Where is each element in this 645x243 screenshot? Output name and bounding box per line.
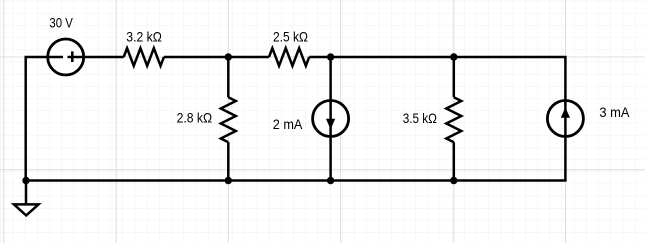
svg-text:3 mA: 3 mA [599,104,630,120]
svg-text:30 V: 30 V [49,15,73,31]
node: ground junction [22,177,29,184]
wire: 2 mA branch vertical [329,57,332,181]
wire: 3.5k branch lower stub [453,142,456,180]
wire: 2.8k branch upper stub [227,57,230,97]
wire: ground stub [25,181,28,205]
voltage source V1 30 V [48,39,84,75]
node: bottom of 3.5k branch [450,177,457,184]
node: bottom of 2 mA branch [327,177,334,184]
svg-text:3.5 kΩ: 3.5 kΩ [403,110,437,126]
wire: outer loop (top bus left part, left vertical, bottom bus, right vertical, top bus right part) [26,57,566,181]
wire: 3.5k branch upper stub [453,57,456,97]
svg-text:2.8 kΩ: 2.8 kΩ [177,109,213,125]
resistor R1 3.2 kΩ [124,48,164,66]
wire: 2.8k branch lower stub [227,142,230,180]
current source I1 2 mA [313,101,349,137]
wire: top bus middle segment between 3.2k and 2.5k resistors [164,56,269,59]
resistor R2 2.5 kΩ [269,48,309,66]
svg-text:2.5 kΩ: 2.5 kΩ [273,29,308,45]
node: top of 3.5k branch [450,53,457,60]
current source I2 3 mA [547,101,583,137]
node: top of 2 mA branch [327,53,334,60]
ground [14,204,39,215]
node: top of 2.8k branch [225,53,232,60]
resistor R3 2.8 kΩ [221,97,236,142]
node: bottom of 2.8k branch [225,177,232,184]
svg-text:3.2 kΩ: 3.2 kΩ [126,29,162,45]
resistor R4 3.5 kΩ [446,97,461,142]
svg-text:2 mA: 2 mA [273,116,303,132]
